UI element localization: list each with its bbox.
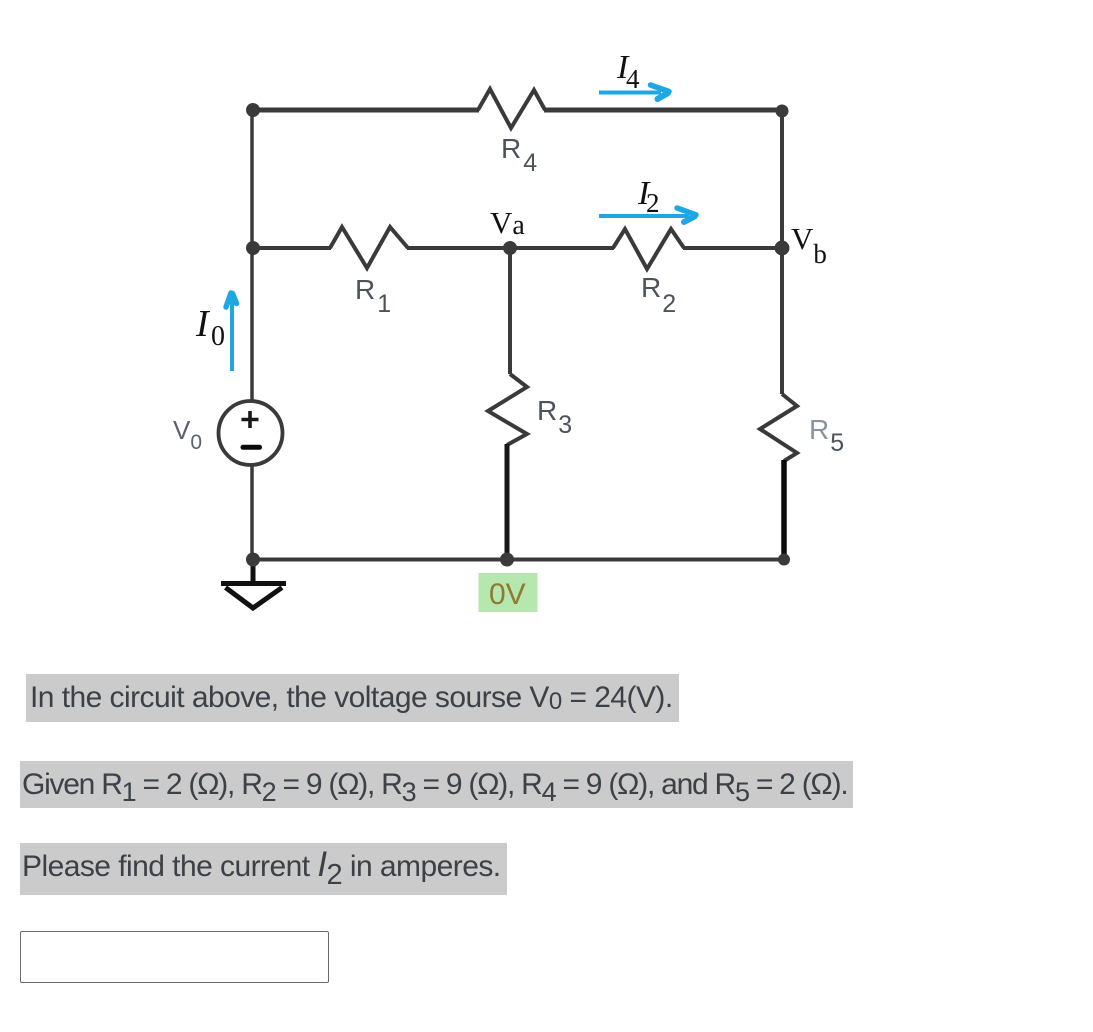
resistor R5 zigzag (760, 394, 797, 461)
wire middle left segment (253, 246, 331, 250)
wire left vertical upper (250, 110, 254, 402)
ground 0V label (479, 573, 538, 612)
wire left vertical lower (250, 464, 254, 560)
svg-text:R3: R3 (537, 395, 572, 439)
svg-text:0: 0 (211, 321, 225, 352)
current arrow I4 (599, 91, 661, 95)
wire middle right segment (683, 246, 782, 250)
wire below R3 (505, 444, 510, 560)
wire top right segment (544, 108, 782, 113)
svg-text:4: 4 (626, 64, 640, 94)
svg-text:R5: R5 (809, 414, 844, 457)
plus sign (242, 411, 259, 428)
minus sign (243, 445, 260, 450)
node BL (246, 553, 260, 567)
svg-text:R1: R1 (355, 274, 391, 318)
resistor R1 (330, 227, 408, 268)
wire bottom (253, 558, 784, 562)
node TR (776, 105, 789, 118)
resistor R2 (613, 229, 684, 269)
answer input box (20, 931, 329, 983)
current arrow I2 (599, 214, 689, 218)
svg-text:V0: V0 (173, 415, 202, 454)
svg-text:R4: R4 (501, 133, 537, 177)
wire right vertical (780, 111, 784, 394)
resistor R4 (478, 89, 545, 128)
node BC (500, 553, 514, 567)
node Va stem wire (508, 248, 512, 374)
problem statement line 2 (20, 761, 853, 808)
node Va (503, 241, 517, 255)
problem statement line 1 (26, 674, 679, 722)
wire below R5 (781, 460, 787, 560)
node BR (778, 554, 790, 566)
voltage source V0 circle (219, 401, 283, 465)
ground (251, 559, 256, 583)
current arrow I0 (230, 299, 234, 371)
node TL (246, 103, 260, 117)
node Vb (775, 241, 790, 256)
problem statement line 3 (20, 843, 507, 895)
wire middle center segment (407, 246, 614, 250)
svg-text:Va: Va (490, 205, 525, 241)
svg-text:2: 2 (646, 188, 660, 218)
svg-text:0V: 0V (489, 578, 526, 611)
node ML (246, 241, 260, 255)
wire top left segment (253, 108, 479, 113)
resistor R3 zigzag (488, 374, 527, 445)
svg-text:Vb: Vb (791, 221, 827, 269)
svg-text:I: I (195, 303, 211, 345)
svg-text:R2: R2 (641, 272, 676, 318)
